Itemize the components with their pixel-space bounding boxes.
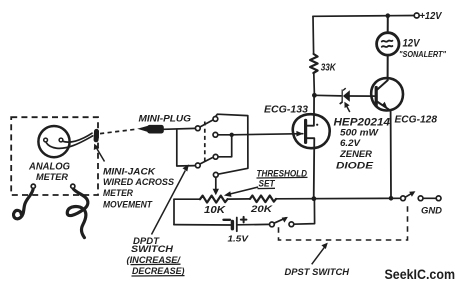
svg-text:DPST SWITCH: DPST SWITCH [285, 267, 350, 277]
svg-text:SWITCH: SWITCH [131, 244, 174, 254]
svg-text:METER: METER [36, 172, 69, 182]
svg-text:"SONALERT": "SONALERT" [399, 50, 446, 59]
svg-text:1.5V: 1.5V [228, 233, 250, 243]
svg-text:DECREASE): DECREASE) [132, 266, 185, 276]
svg-text:+12V: +12V [420, 11, 443, 22]
svg-text:20K: 20K [250, 204, 274, 215]
svg-text:HEP20214: HEP20214 [334, 116, 391, 128]
svg-text:500 mW: 500 mW [340, 128, 379, 139]
svg-text:33K: 33K [321, 62, 337, 73]
svg-text:ZENER: ZENER [339, 149, 372, 160]
svg-text:MINI-PLUG: MINI-PLUG [139, 114, 192, 125]
svg-text:MOVEMENT: MOVEMENT [103, 199, 153, 209]
svg-text:12V: 12V [403, 38, 421, 50]
svg-text:METER: METER [103, 188, 133, 198]
svg-text:WIRED ACROSS: WIRED ACROSS [103, 177, 174, 187]
svg-text:DIODE: DIODE [336, 160, 374, 171]
svg-text:(INCREASE/: (INCREASE/ [127, 255, 182, 265]
svg-text:ANALOG: ANALOG [28, 161, 70, 172]
svg-text:SET: SET [259, 179, 276, 189]
svg-text:ECG-128: ECG-128 [395, 115, 438, 126]
svg-text:10K: 10K [204, 205, 226, 216]
svg-text:ECG-133: ECG-133 [264, 105, 308, 116]
svg-text:6.2V: 6.2V [340, 138, 361, 149]
svg-text:GND: GND [421, 206, 442, 217]
svg-text:SeekIC.com: SeekIC.com [385, 266, 456, 282]
